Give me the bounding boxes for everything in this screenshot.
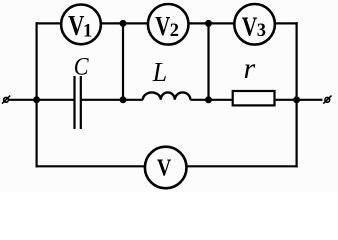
svg-text:2: 2: [170, 21, 179, 41]
inductor L: [143, 92, 191, 99]
junction node main wire at L-r: [205, 96, 212, 103]
svg-text:L: L: [152, 57, 167, 87]
svg-text:V: V: [157, 156, 172, 182]
wire: resistor to right terminal: [276, 99, 323, 101]
voltmeter V2: [148, 4, 189, 45]
resistor r box: [233, 91, 275, 105]
svg-text:V: V: [68, 11, 84, 42]
voltmeter V: [145, 147, 187, 189]
wire: left riser: [35, 22, 37, 167]
wire: bottom bus: [36, 165, 298, 167]
junction node on top bus between V1 and V2: [120, 20, 127, 27]
left terminal: [2, 96, 10, 104]
wire: top bus: [36, 22, 298, 24]
voltmeter V3: [234, 4, 275, 45]
right terminal: [323, 96, 331, 104]
svg-text:r: r: [244, 52, 256, 85]
junction node on top bus between V2 and V3: [205, 20, 212, 27]
svg-text:3: 3: [257, 21, 266, 41]
svg-text:V: V: [242, 10, 258, 41]
wire: riser node between L and r: [207, 23, 209, 99]
junction node right on main wire: [293, 96, 300, 103]
wire: capacitor to inductor: [82, 99, 143, 101]
svg-text:C: C: [74, 54, 89, 81]
wire: inductor to resistor: [190, 99, 232, 101]
junction node left on main wire: [33, 96, 40, 103]
wire: left terminal to capacitor: [9, 99, 74, 101]
capacitor C plates: [75, 76, 81, 129]
svg-text:1: 1: [83, 22, 92, 42]
wire: riser node between C and L: [122, 23, 124, 99]
wire: right riser: [296, 22, 298, 167]
voltmeter V1: [61, 5, 101, 45]
junction node main wire at C-L: [120, 96, 127, 103]
svg-text:V: V: [155, 11, 170, 41]
